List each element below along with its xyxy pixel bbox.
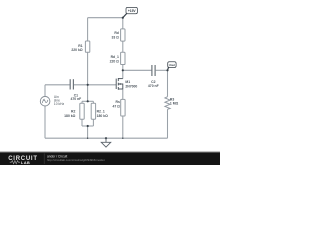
svg-text:220 kΩ: 220 kΩ	[71, 48, 82, 52]
svg-text:+15V: +15V	[128, 9, 137, 13]
svg-text:220 Ω: 220 Ω	[110, 59, 120, 63]
svg-text:470 nF: 470 nF	[71, 97, 82, 101]
svg-text:1 MΩ: 1 MΩ	[170, 101, 179, 105]
svg-text:Rs: Rs	[116, 100, 120, 104]
svg-text:180 kΩ: 180 kΩ	[97, 114, 108, 118]
svg-text:33 Ω: 33 Ω	[111, 35, 119, 39]
svg-text:2N7000: 2N7000	[125, 84, 137, 88]
svg-text:10 kHz: 10 kHz	[54, 102, 65, 106]
svg-text:470 nF: 470 nF	[148, 84, 159, 88]
svg-text:180 kΩ: 180 kΩ	[64, 114, 75, 118]
svg-text:http://circuitlab.com/circuit/: http://circuitlab.com/circuit/sdg63949b6…	[47, 158, 105, 162]
svg-text:Uout: Uout	[169, 63, 175, 67]
svg-text:47 Ω: 47 Ω	[112, 105, 120, 109]
svg-text:LAB: LAB	[21, 161, 30, 165]
